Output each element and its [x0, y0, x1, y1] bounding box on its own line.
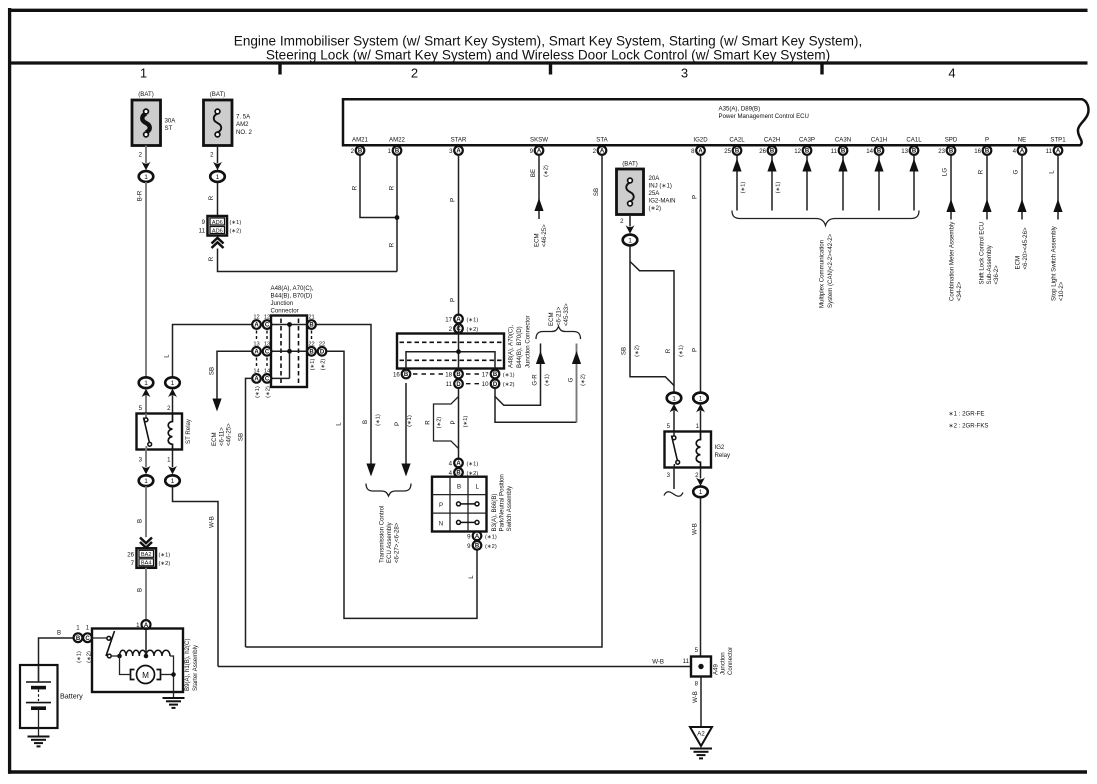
svg-text:B: B: [309, 350, 314, 356]
svg-text:INJ (∗1): INJ (∗1): [649, 183, 672, 190]
svg-text:A: A: [254, 377, 259, 383]
contact P row: [457, 502, 480, 506]
svg-text:(∗2): (∗2): [503, 382, 515, 388]
svg-text:P: P: [692, 348, 699, 352]
battery: [20, 665, 83, 736]
svg-text:A: A: [254, 350, 259, 356]
svg-text:W-B: W-B: [209, 516, 216, 528]
fuse INJ output wire: [629, 215, 631, 227]
svg-text:CA2L: CA2L: [729, 137, 745, 144]
svg-text:(∗2): (∗2): [544, 165, 550, 177]
wire L from pin 22 to park/neutral switch: [327, 351, 478, 618]
connector 1 above ST relay pin 5: [139, 377, 154, 397]
svg-text:SB: SB: [238, 433, 245, 441]
svg-text:(∗1): (∗1): [503, 373, 515, 379]
svg-text:(BAT): (BAT): [210, 91, 225, 98]
svg-text:A48(A), A70(C),B44(B), B70(D)J: A48(A), A70(C),B44(B), B70(D)Junction Co…: [508, 315, 532, 368]
svg-text:(∗1): (∗1): [463, 416, 469, 428]
svg-text:A48(A), A70(C),B44(B), B70(D)J: A48(A), A70(C),B44(B), B70(D)JunctionCon…: [271, 285, 314, 315]
wire hold-in junction to motor: [120, 656, 131, 675]
junction connector 2 pin 2(C): [449, 324, 479, 333]
wire R at AM21: [360, 155, 397, 218]
svg-text:A: A: [254, 323, 259, 329]
junction connector 2 box: [397, 334, 504, 369]
arrow P to transmission: [401, 464, 410, 477]
wire pin A to coils junction: [145, 629, 147, 655]
svg-text:3: 3: [449, 148, 453, 155]
ground point A2: [690, 727, 712, 758]
row 14 wire into bus: [261, 377, 290, 379]
wire SB (*2) branch: [630, 246, 674, 386]
svg-text:AM22: AM22: [389, 137, 406, 144]
ECU pin IG2D (8,A): [691, 137, 708, 155]
wire R at AM22: [396, 155, 398, 272]
svg-text:2: 2: [167, 405, 171, 412]
wire R (*1) branch: [630, 262, 674, 393]
svg-text:B: B: [309, 323, 314, 329]
node motor-ground junction: [171, 672, 176, 677]
svg-text:B: B: [76, 636, 81, 642]
A49 junction connector: [683, 647, 734, 688]
connector 1 above IG2 relay pin 1: [693, 393, 708, 413]
wire SB from STA pin: [246, 155, 603, 647]
svg-text:P: P: [692, 195, 699, 199]
brace multiplex CAN: [732, 211, 919, 226]
svg-text:Multiplex CommunicationSystem: Multiplex CommunicationSystem (CAN)<2-2>…: [819, 233, 834, 308]
svg-text:Relay: Relay: [715, 452, 732, 459]
svg-text:B9(A), h1(B), h2(C)Starter Ass: B9(A), h1(B), h2(C)Starter Assembly: [184, 639, 199, 692]
battery connector pins B,C: [74, 625, 93, 663]
svg-text:B: B: [137, 519, 144, 523]
svg-text:(∗1): (∗1): [255, 386, 261, 398]
starter magnetic switch: [92, 631, 120, 658]
junction chevrons below AD6: [212, 238, 224, 248]
svg-text:CA2H: CA2H: [764, 137, 780, 144]
svg-text:ECM<46-25>: ECM<46-25>: [534, 224, 548, 247]
svg-text:1: 1: [388, 148, 392, 155]
svg-text:AM21: AM21: [352, 137, 369, 144]
node coils junction: [144, 654, 149, 659]
svg-text:25: 25: [724, 148, 731, 155]
svg-text:A: A: [456, 317, 461, 323]
park/neutral position switch pin 4(B): [449, 468, 479, 477]
battery positive wire B: [39, 638, 74, 681]
pin 22(D): [318, 342, 327, 356]
svg-text:17: 17: [445, 316, 452, 323]
pin 12(C): [263, 315, 272, 329]
pin 14(A): [252, 369, 261, 383]
svg-text:A: A: [1020, 149, 1025, 155]
ECU pin SKSW (9,A): [530, 137, 549, 155]
svg-text:Transmission ControlECU Assemb: Transmission ControlECU Assembly<6-27>,<…: [379, 506, 401, 563]
svg-text:W-B: W-B: [692, 523, 699, 535]
svg-text:∗2 : 2GR-FKS: ∗2 : 2GR-FKS: [949, 423, 989, 430]
svg-text:A2: A2: [697, 731, 705, 738]
svg-text:A: A: [456, 149, 461, 155]
svg-text:R: R: [389, 185, 396, 190]
ECU pin AM21 (2,B): [351, 137, 369, 155]
wire CA2L (*1): [732, 155, 746, 211]
svg-text:8: 8: [691, 148, 695, 155]
wire CA2H (*1): [767, 155, 781, 211]
connector BA2/BA4 block (26 *1 / 7 *2): [127, 548, 170, 568]
svg-text:CA1H: CA1H: [871, 137, 887, 144]
svg-text:9: 9: [202, 219, 206, 226]
park/neutral position switch pin 9(A): [467, 532, 497, 541]
svg-text:26: 26: [759, 148, 766, 155]
svg-text:Engine Immobiliser System (w/: Engine Immobiliser System (w/ Smart Key …: [234, 34, 863, 49]
svg-text:(∗2): (∗2): [649, 205, 662, 212]
wire coil end down to ground: [170, 656, 174, 697]
page border frame (left, top, bottom; right side open): [8, 8, 11, 774]
svg-text:(∗1): (∗1): [376, 414, 382, 426]
battery ground: [28, 737, 50, 747]
svg-text:(BAT): (BAT): [622, 161, 637, 168]
svg-text:CA1L: CA1L: [906, 137, 922, 144]
svg-text:R: R: [352, 185, 359, 190]
junction chevrons above BA2: [140, 538, 152, 548]
svg-text:13: 13: [901, 148, 908, 155]
svg-text:BA4: BA4: [141, 561, 152, 567]
wire CA1H: [874, 155, 883, 211]
ECU pin P (16,B): [974, 137, 991, 155]
svg-text:W-B: W-B: [692, 691, 699, 703]
fuse 30A ST output wire: [145, 146, 147, 164]
svg-text:1: 1: [140, 66, 147, 81]
svg-text:L: L: [164, 354, 171, 358]
pin 18(B): [445, 370, 463, 379]
ST Relay: [137, 405, 193, 464]
wire SB from pin 13 to ECM: [217, 351, 252, 399]
svg-text:(∗1): (∗1): [485, 534, 497, 540]
svg-text:A: A: [698, 149, 703, 155]
svg-text:9: 9: [467, 533, 471, 540]
svg-text:1: 1: [76, 625, 80, 632]
wire through center pins: [458, 324, 460, 379]
svg-text:3: 3: [667, 472, 671, 479]
svg-text:NE: NE: [1018, 137, 1026, 144]
wire motor to ground side: [161, 674, 174, 676]
svg-text:5: 5: [695, 647, 699, 654]
svg-text:B: B: [362, 420, 369, 424]
ECU pin CA3P (12,B): [794, 137, 815, 155]
svg-text:BE: BE: [530, 169, 537, 177]
svg-text:2: 2: [449, 326, 453, 333]
svg-text:(∗2): (∗2): [266, 386, 272, 398]
pin 22(B): [307, 342, 316, 356]
svg-text:2: 2: [411, 66, 418, 81]
svg-text:A: A: [537, 149, 542, 155]
svg-text:R: R: [425, 420, 432, 425]
connector 1 above ST relay pin 2: [165, 377, 180, 397]
svg-text:Combination Meter Assembly<34-: Combination Meter Assembly<34-2>: [949, 221, 964, 301]
svg-text:B: B: [735, 149, 740, 155]
svg-text:SKSW: SKSW: [530, 137, 548, 144]
ECU pin CA1L (13,B): [901, 137, 922, 155]
svg-text:IG2D: IG2D: [693, 137, 708, 144]
svg-text:5: 5: [139, 405, 143, 412]
svg-text:B: B: [912, 149, 917, 155]
svg-text:B: B: [877, 149, 882, 155]
svg-text:11: 11: [831, 148, 838, 155]
svg-text:(∗2): (∗2): [485, 544, 497, 550]
svg-text:ST: ST: [165, 125, 173, 132]
connector 1 below IG2 relay pin 2: [700, 468, 702, 479]
svg-text:B: B: [57, 630, 61, 637]
svg-text:B: B: [358, 149, 363, 155]
internal bus wire: [406, 352, 495, 370]
pin 11(D): [446, 379, 463, 388]
wire R from AD6 to AM21/AM22: [218, 249, 398, 272]
wire B from pin 21 to transmission ECU: [317, 325, 372, 464]
arrow up to SKSW: [534, 198, 543, 211]
svg-text:Battery: Battery: [60, 692, 83, 701]
pin 21(B): [307, 315, 316, 329]
svg-text:(∗1): (∗1): [77, 651, 83, 663]
svg-text:(∗1): (∗1): [467, 317, 479, 323]
svg-text:Stop Light Switch Assembly<10-: Stop Light Switch Assembly<10-2>: [1051, 225, 1065, 301]
svg-text:Power Management Control ECU: Power Management Control ECU: [719, 113, 809, 120]
ECU A35(A),D89(B) Power Management Control ECU box: [343, 99, 1088, 145]
fuse AM2 output wire: [217, 146, 219, 164]
ECU pin STP1 (11,A): [1046, 137, 1067, 155]
svg-text:(∗2): (∗2): [467, 327, 479, 333]
ECU pin STA (2,A): [593, 137, 609, 155]
svg-text:L: L: [1049, 170, 1056, 174]
svg-text:L: L: [468, 575, 475, 579]
svg-text:11: 11: [1046, 148, 1053, 155]
svg-text:B: B: [841, 149, 846, 155]
wire B to starter: [145, 568, 147, 620]
pin 10(D): [482, 379, 515, 388]
svg-text:G-R: G-R: [532, 374, 539, 386]
svg-text:7: 7: [131, 560, 135, 567]
wire LG from SPD: [942, 155, 964, 301]
ECU pin NE (4,A): [1013, 137, 1027, 155]
svg-text:AD6: AD6: [212, 228, 223, 234]
svg-text:B: B: [949, 149, 954, 155]
pin 16(B): [393, 370, 410, 379]
park/neutral position switch pin 9(B): [467, 541, 497, 550]
svg-text:B: B: [770, 149, 775, 155]
starter pull-in coil: [146, 650, 170, 656]
svg-text:30A: 30A: [165, 118, 177, 125]
svg-text:(∗2): (∗2): [321, 359, 327, 371]
svg-text:STA: STA: [596, 137, 608, 144]
svg-text:P: P: [450, 298, 457, 302]
svg-text:26: 26: [127, 551, 134, 558]
svg-text:B: B: [475, 544, 480, 550]
svg-text:4: 4: [1013, 148, 1017, 155]
svg-text:B: B: [805, 149, 810, 155]
title separator line: [8, 61, 1088, 64]
svg-text:B: B: [404, 372, 409, 378]
wire SB from pin 14 to STA loop: [246, 378, 253, 647]
svg-text:2: 2: [139, 152, 143, 159]
starter assembly box: [92, 629, 183, 693]
wire CA3P: [802, 155, 811, 211]
wire B to BA connector: [145, 486, 147, 537]
arrow G-R up to ECM: [536, 351, 545, 364]
svg-text:B-R: B-R: [137, 190, 144, 201]
wire P from IG2D pin: [700, 155, 702, 393]
svg-text:2: 2: [351, 148, 355, 155]
svg-text:(∗2): (∗2): [230, 229, 242, 235]
svg-text:4: 4: [948, 66, 955, 81]
connector continuation dashes: [257, 331, 312, 341]
svg-text:LG: LG: [942, 168, 949, 176]
svg-text:N: N: [439, 520, 443, 527]
svg-text:A: A: [475, 534, 480, 540]
svg-text:(∗2): (∗2): [159, 561, 171, 567]
row 12 wire through connector: [261, 324, 317, 326]
wire B-R: [145, 182, 147, 378]
svg-text:IG2: IG2: [715, 444, 725, 451]
svg-text:A35(A), D89(B): A35(A), D89(B): [719, 106, 761, 113]
junction connector 2 pin 17(A): [445, 315, 478, 324]
svg-text:ECM<6-20><45-26>: ECM<6-20><45-26>: [1015, 227, 1029, 269]
svg-text:2: 2: [593, 148, 597, 155]
svg-text:SB: SB: [621, 347, 628, 355]
starter ground: [163, 698, 185, 708]
svg-text:20A: 20A: [649, 175, 661, 182]
svg-text:12: 12: [794, 148, 801, 155]
node bus row12: [287, 322, 292, 327]
svg-text:IG2-MAIN: IG2-MAIN: [649, 198, 676, 205]
pin 13(C): [263, 342, 272, 356]
alternate colour bracket R(*2): [434, 397, 459, 449]
wire W-B from relay pin 1: [173, 486, 219, 666]
junction connector 1 box: [271, 316, 307, 388]
svg-text:2: 2: [210, 152, 214, 159]
wire L from junction connector to relay pin 2: [173, 325, 253, 378]
svg-text:(∗1): (∗1): [310, 359, 316, 371]
ECU pin CA3N (11,B): [831, 137, 851, 155]
node bus center: [456, 349, 461, 354]
svg-text:11: 11: [199, 228, 206, 235]
svg-text:8: 8: [695, 681, 699, 688]
svg-text:A49JunctionConnector: A49JunctionConnector: [713, 647, 734, 675]
svg-text:Steering Lock (w/ Smart Key Sy: Steering Lock (w/ Smart Key System) and …: [266, 48, 830, 63]
wire W-B to ground: [700, 677, 702, 728]
wire G from NE: [1013, 155, 1029, 270]
svg-text:R: R: [665, 348, 672, 353]
connector AD6 block (9 *1 / 11 *2): [199, 216, 242, 236]
svg-text:ECM<6-11><46-25>: ECM<6-11><46-25>: [211, 423, 233, 446]
node bus row13: [287, 349, 292, 354]
ECU pin CA1H (14,B): [866, 137, 887, 155]
svg-text:R: R: [978, 169, 985, 174]
connector 1 below relay pin 1: [172, 450, 174, 468]
svg-text:(∗2): (∗2): [437, 417, 443, 429]
svg-text:2: 2: [695, 472, 699, 479]
svg-text:(∗1): (∗1): [407, 415, 413, 427]
svg-text:R: R: [208, 256, 215, 261]
fuse 20A INJ / 25A IG2-MAIN: [617, 161, 676, 226]
svg-text:3: 3: [681, 66, 688, 81]
svg-text:CA3N: CA3N: [835, 137, 851, 144]
svg-text:L: L: [336, 422, 343, 426]
svg-text:B: B: [457, 483, 461, 490]
connector continuation dashes: [413, 374, 482, 384]
IG2 Relay: [665, 423, 732, 479]
arrow to ECM: [212, 399, 221, 412]
svg-text:BA2: BA2: [141, 552, 152, 558]
wire CA3N: [838, 155, 847, 211]
connector 1 below fuse ST: [139, 162, 154, 182]
svg-text:C: C: [265, 350, 270, 356]
wire into relay pin 5: [145, 396, 147, 414]
pin 17(B): [482, 370, 515, 379]
svg-text:R: R: [208, 195, 215, 200]
junction node AM21/AM22: [395, 215, 400, 220]
svg-text:G: G: [568, 377, 575, 382]
svg-text:3: 3: [139, 457, 143, 464]
wire W-B from relay to A49: [700, 497, 702, 656]
column tick 3-4: [820, 64, 823, 75]
svg-text:C: C: [85, 636, 90, 642]
ECU pin STAR (3,A): [449, 137, 467, 155]
wire P/R to park/neutral switch: [458, 388, 460, 459]
svg-text:D: D: [456, 382, 461, 388]
svg-text:AD6: AD6: [212, 220, 223, 226]
arrow B to transmission: [366, 464, 375, 477]
svg-text:4: 4: [449, 460, 453, 467]
svg-text:∗1 : 2GR-FE: ∗1 : 2GR-FE: [949, 411, 985, 418]
svg-text:A: A: [1056, 149, 1061, 155]
fuse 7.5A AM2 NO.2: [204, 91, 253, 159]
svg-text:B: B: [395, 149, 400, 155]
column tick 2-3: [549, 64, 552, 75]
svg-text:B: B: [493, 372, 498, 378]
svg-text:(∗1): (∗1): [545, 374, 551, 386]
connector 1 above IG2 relay pin 5: [667, 393, 682, 413]
svg-text:5: 5: [667, 423, 671, 430]
svg-text:10: 10: [482, 381, 489, 388]
svg-text:9: 9: [467, 543, 471, 550]
wire R from P: [978, 155, 1001, 285]
fuse 30A ST: [132, 91, 176, 159]
wire from relay pin 3 to continuation squiggle: [673, 468, 675, 490]
connector 1 below fuse INJ: [623, 225, 638, 245]
connector 1 below fuse AM2: [210, 162, 225, 182]
wire BE from SKSW pin: [538, 155, 540, 219]
svg-text:D: D: [493, 382, 498, 388]
row 13 wire through connector: [261, 350, 327, 352]
park/neutral position switch box: [432, 477, 487, 532]
ECU pin CA2L (25,B): [724, 137, 745, 155]
svg-text:(∗1): (∗1): [776, 182, 782, 194]
contact N row: [457, 520, 480, 524]
starter pin A: [136, 620, 150, 629]
svg-text:SB: SB: [593, 188, 600, 196]
pin 14(C): [263, 369, 272, 383]
svg-text:P: P: [450, 420, 457, 424]
svg-text:14: 14: [866, 148, 873, 155]
svg-text:B3(A), B66(B)Park/Neutral Posi: B3(A), B66(B)Park/Neutral PositionSwitch…: [491, 474, 513, 531]
svg-text:D: D: [320, 350, 325, 356]
svg-text:B: B: [456, 372, 461, 378]
svg-text:23: 23: [938, 148, 945, 155]
internal bus wire: [289, 325, 291, 379]
svg-text:AM2: AM2: [236, 121, 249, 128]
svg-text:SB: SB: [209, 367, 216, 375]
svg-text:P: P: [450, 198, 457, 202]
svg-text:M: M: [142, 671, 149, 680]
wire CA1L: [909, 155, 918, 211]
wire R to AD connector: [217, 182, 219, 216]
svg-text:1: 1: [86, 625, 90, 632]
